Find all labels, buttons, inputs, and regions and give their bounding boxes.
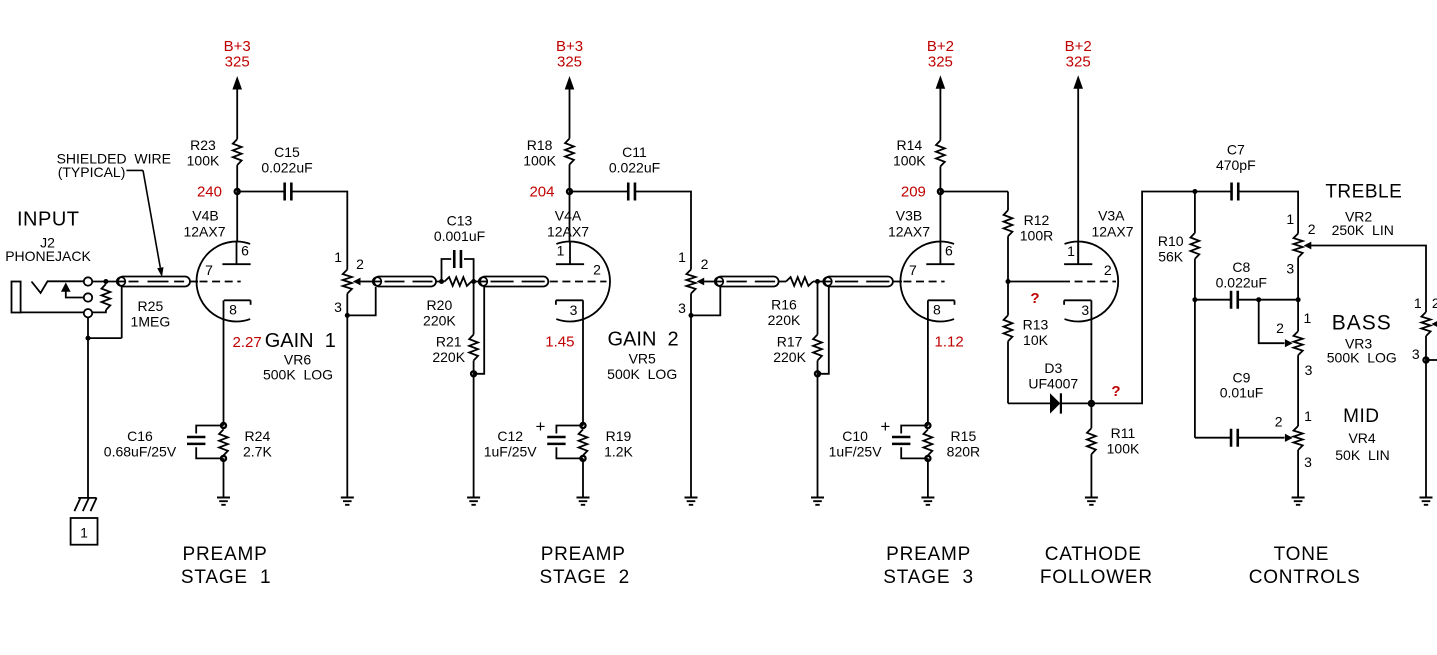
svg-text:3: 3 — [570, 302, 578, 318]
ground (VR4) — [1292, 498, 1305, 505]
svg-text:3: 3 — [1286, 261, 1294, 277]
svg-text:1: 1 — [80, 525, 88, 541]
svg-text:8: 8 — [933, 301, 941, 317]
svg-text:?: ? — [1111, 383, 1120, 400]
resistor R10 56K — [1194, 192, 1196, 233]
capacitor C10 1uF/25V — [901, 426, 928, 434]
svg-text:GAIN 2: GAIN 2 — [608, 329, 679, 351]
wire (VR6 wiper to cable) — [360, 281, 374, 283]
wire (node to C7) — [1195, 191, 1232, 193]
wire (to ground) — [927, 458, 929, 497]
resistor R11 100K — [1090, 403, 1092, 428]
connector J2 phone jack body — [12, 282, 21, 313]
node (input / R25 top) — [103, 279, 108, 284]
svg-text:2: 2 — [1276, 320, 1284, 336]
ground (V4B cathode) — [217, 498, 230, 505]
svg-text:R16: R16 — [771, 297, 797, 313]
svg-text:1MEG: 1MEG — [131, 313, 171, 329]
svg-text:3: 3 — [678, 300, 686, 316]
capacitor C9 0.01uF — [1231, 429, 1238, 447]
svg-text:MID: MID — [1343, 406, 1379, 427]
ground (V4A cathode) — [577, 498, 590, 505]
V4B grid (pin 7, dashed) — [200, 281, 241, 283]
wire (R14 to plate node) — [939, 166, 941, 191]
resistor R17 220K — [817, 282, 819, 335]
svg-text:R15: R15 — [951, 428, 977, 444]
power flag B+2 (cathode follower) — [1073, 75, 1083, 89]
node (VR1 pin 3) — [1423, 357, 1428, 362]
svg-text:1: 1 — [678, 249, 686, 265]
wire (tip terminal to input node) — [92, 281, 118, 283]
svg-text:B+3: B+3 — [224, 38, 251, 55]
svg-text:C12: C12 — [497, 428, 523, 444]
wire (V4B cathode) — [223, 300, 225, 425]
svg-text:1uF/25V: 1uF/25V — [829, 443, 883, 459]
wire (cable 4 shield drain) — [818, 287, 829, 374]
wire (sleeve to ground node) — [87, 317, 89, 338]
svg-text:0.001uF: 0.001uF — [434, 228, 485, 244]
power flag B+3 (stage 2) — [565, 76, 575, 90]
svg-text:R19: R19 — [606, 428, 632, 444]
svg-text:VR5: VR5 — [629, 351, 656, 367]
potentiometer VR2 (TREBLE) — [1294, 234, 1303, 258]
node (C8 / VR3 wiper tap) — [1256, 297, 1261, 302]
ground (VR6) — [341, 498, 354, 505]
node (input ground) — [86, 336, 91, 341]
svg-text:+: + — [536, 417, 546, 436]
svg-text:325: 325 — [1066, 54, 1091, 71]
power flag B+2 (stage 3) — [936, 75, 946, 89]
wire (VR4 to ground) — [1297, 450, 1299, 498]
svg-text:C7: C7 — [1227, 142, 1245, 158]
node (cathode RC top) — [221, 423, 226, 428]
svg-text:220K: 220K — [432, 349, 465, 365]
wire (R25 bottom to sleeve) — [92, 310, 106, 312]
ground (R11) — [1085, 498, 1098, 505]
svg-text:0.022uF: 0.022uF — [1216, 274, 1267, 290]
svg-text:1: 1 — [1304, 408, 1312, 424]
svg-text:2: 2 — [1275, 414, 1283, 430]
svg-text:+: + — [880, 417, 890, 436]
wire (V4A cathode) — [582, 300, 584, 425]
wire (plate node to C15) — [237, 191, 285, 193]
capacitor C16 0.68uF/25V — [196, 426, 223, 434]
svg-text:6: 6 — [241, 242, 249, 258]
svg-text:?: ? — [1030, 290, 1039, 307]
chassis ground — [74, 498, 96, 511]
wire (to ground) — [582, 458, 584, 497]
svg-text:3: 3 — [1412, 346, 1420, 362]
svg-text:56K: 56K — [1158, 248, 1184, 264]
svg-text:3: 3 — [1081, 302, 1089, 318]
node (cathode RC bottom) — [925, 456, 930, 461]
svg-text:8: 8 — [229, 301, 237, 317]
svg-text:3: 3 — [334, 299, 342, 315]
svg-text:0.01uF: 0.01uF — [1220, 385, 1264, 401]
svg-text:2: 2 — [593, 262, 601, 278]
svg-text:325: 325 — [225, 54, 250, 71]
svg-text:C10: C10 — [842, 428, 868, 444]
svg-text:6: 6 — [945, 242, 953, 258]
wire (junction to VR3 pin 1 column) — [1259, 299, 1298, 301]
svg-text:1.45: 1.45 — [545, 334, 574, 351]
svg-text:2: 2 — [356, 256, 364, 272]
svg-text:STAGE 1: STAGE 1 — [181, 567, 272, 588]
V3B grid (pin 7, dashed) — [903, 281, 944, 283]
svg-text:100K: 100K — [893, 152, 926, 168]
svg-text:V4A: V4A — [555, 208, 582, 224]
svg-text:0.68uF/25V: 0.68uF/25V — [104, 443, 177, 459]
capacitor C13 0.001uF (bridge over R20) — [442, 259, 452, 282]
node (R20 left / C13) — [439, 279, 444, 284]
node (R17 bottom / shield drain) — [815, 371, 820, 376]
node (tone input / C7 / R10) — [1192, 189, 1197, 194]
node (R16 right / R17) — [815, 279, 820, 284]
svg-text:R24: R24 — [245, 428, 271, 444]
svg-text:1: 1 — [1067, 243, 1075, 259]
capacitor C15 0.022uF — [285, 183, 292, 201]
potentiometer VR1 (volume, right edge) — [1421, 312, 1430, 336]
potentiometer VR3 (BASS) — [1294, 331, 1303, 355]
wire (R23 to plate node) — [236, 165, 238, 191]
svg-text:R11: R11 — [1111, 425, 1136, 441]
svg-text:100K: 100K — [187, 152, 220, 168]
svg-text:R13: R13 — [1023, 317, 1049, 333]
svg-text:250K LIN: 250K LIN — [1332, 222, 1394, 238]
wire (VR5 wiper to cable) — [704, 281, 716, 283]
svg-text:C13: C13 — [447, 213, 473, 229]
potentiometer VR5 (GAIN 2) — [686, 270, 695, 294]
svg-text:470pF: 470pF — [1216, 157, 1256, 173]
capacitor C8 0.022uF — [1231, 291, 1238, 309]
wire (plate node to V4B plate) — [236, 192, 238, 242]
svg-text:TREBLE: TREBLE — [1325, 182, 1402, 203]
svg-text:0.022uF: 0.022uF — [609, 159, 660, 175]
svg-text:220K: 220K — [423, 312, 456, 328]
wire (plate node to R12) — [940, 191, 1008, 193]
svg-text:1: 1 — [557, 243, 565, 259]
svg-text:(TYPICAL): (TYPICAL) — [58, 164, 126, 180]
svg-text:12AX7: 12AX7 — [183, 223, 225, 239]
svg-text:1: 1 — [1286, 211, 1294, 227]
wire (R18 to plate node) — [569, 165, 571, 192]
wire (cathode output to tone stack) — [1091, 192, 1195, 404]
V3A grid (pin 2, dashed) — [1062, 281, 1116, 283]
svg-text:2.7K: 2.7K — [243, 443, 272, 459]
shielded cable (VR5 to R16) — [716, 277, 779, 287]
svg-text:VR4: VR4 — [1348, 430, 1375, 446]
wire (VR6 to ground) — [346, 315, 348, 497]
svg-text:R10: R10 — [1158, 233, 1184, 249]
wire (ground node down to chassis ground) — [87, 338, 89, 498]
node (R20 right / C13 / R21) — [471, 279, 476, 284]
resistor R16 220K (grid stopper) — [779, 281, 786, 283]
power flag B+3 (stage 1) — [232, 76, 242, 90]
svg-text:325: 325 — [928, 54, 953, 71]
svg-text:12AX7: 12AX7 — [547, 223, 589, 239]
svg-text:C16: C16 — [127, 428, 153, 444]
svg-text:2.27: 2.27 — [233, 334, 262, 351]
shielded cable (R20 to V4A grid) — [480, 277, 548, 287]
resistor R15 820R — [924, 429, 933, 455]
jack terminal (switch) — [84, 293, 92, 301]
wire (VR5 to ground) — [690, 315, 692, 497]
ground (R21) — [467, 498, 480, 505]
wire (VR1 pin 3 stub) — [1426, 359, 1437, 361]
svg-text:1: 1 — [1414, 295, 1422, 311]
ground (VR5) — [685, 498, 698, 505]
jack terminal (sleeve) — [84, 309, 92, 317]
ground (V3B cathode) — [921, 498, 934, 505]
triode V3A (1/2 12AX7) — [1065, 242, 1119, 322]
svg-text:1: 1 — [1304, 310, 1312, 326]
node 240 (V4B plate) — [235, 189, 240, 194]
wire (VR2 wiper to volume pot) — [1311, 246, 1426, 313]
V4A grid (pin 2, dashed) — [550, 281, 607, 283]
node (V3A grid) — [1006, 279, 1011, 284]
wire (plate node to C11) — [570, 191, 629, 193]
svg-text:GAIN 1: GAIN 1 — [265, 330, 336, 352]
wire (V3B cathode) — [927, 300, 929, 425]
shielded cable (VR6 to R20) — [374, 277, 436, 287]
svg-text:C11: C11 — [622, 144, 647, 160]
svg-text:PREAMP: PREAMP — [183, 544, 268, 565]
wire (C8 to junction) — [1238, 299, 1259, 301]
svg-text:CONTROLS: CONTROLS — [1249, 567, 1361, 588]
svg-text:B+2: B+2 — [927, 38, 954, 55]
node (R10 bottom / C8) — [1192, 297, 1197, 302]
node (R21 bottom / shield drain) — [471, 371, 476, 376]
svg-text:PHONEJACK: PHONEJACK — [5, 248, 91, 264]
svg-text:R21: R21 — [436, 334, 462, 350]
wire (R21 to ground) — [473, 374, 475, 498]
svg-text:100K: 100K — [523, 152, 556, 168]
svg-text:R20: R20 — [427, 297, 453, 313]
svg-text:500K LOG: 500K LOG — [263, 367, 333, 383]
potentiometer VR4 (MID) — [1294, 426, 1303, 450]
wire (grid node to V3A grid) — [1008, 281, 1062, 283]
triode V4B (1/2 12AX7) — [197, 242, 251, 322]
triode V4A (1/2 12AX7) — [556, 242, 610, 322]
chassis ground ref box 1 — [71, 518, 98, 545]
svg-text:VR6: VR6 — [284, 351, 311, 367]
wire (D3 to cathode node) — [1061, 402, 1092, 404]
wire (VR3 pin 3 to VR4 pin 1) — [1297, 355, 1299, 426]
wire (cable to V3B grid) — [893, 281, 902, 283]
capacitor C11 0.022uF — [628, 183, 635, 201]
node (cathode RC top) — [580, 423, 585, 428]
jack switch contact — [61, 282, 71, 291]
svg-text:V3A: V3A — [1098, 208, 1125, 224]
wire (tap to VR3 wiper, arrow) — [1259, 300, 1285, 344]
svg-text:R18: R18 — [527, 137, 553, 153]
diode D3 UF4007 — [1050, 393, 1060, 413]
svg-text:7: 7 — [909, 262, 917, 278]
triode V3B (1/2 12AX7) — [900, 242, 954, 322]
resistor R12 100R — [1007, 192, 1009, 211]
svg-text:CATHODE: CATHODE — [1045, 544, 1142, 565]
svg-text:PREAMP: PREAMP — [886, 544, 971, 565]
ground (R17) — [811, 498, 824, 505]
wire (to ground) — [223, 458, 225, 497]
capacitor C12 1uF/25V — [556, 426, 583, 434]
wire (shield drain to VR5 pin 3) — [691, 287, 720, 315]
svg-text:R14: R14 — [896, 137, 922, 153]
svg-text:100K: 100K — [1107, 440, 1140, 456]
wire (VR1 pin 3) — [1425, 336, 1427, 360]
node (VR2-VR3 column) — [1296, 297, 1301, 302]
wire (plate node to V3B plate) — [939, 192, 941, 242]
svg-text:C8: C8 — [1232, 259, 1250, 275]
wire (ground node to shield drain) — [88, 337, 122, 339]
wire (VR2 pin 3 to VR3 pin 1) — [1297, 258, 1299, 332]
svg-text:1.2K: 1.2K — [604, 443, 633, 459]
svg-text:3: 3 — [1305, 362, 1313, 378]
wire (C15 to VR6 pin 1) — [291, 192, 347, 270]
capacitor C7 470pF — [1232, 183, 1239, 201]
shielded cable (R16 to V3B grid) — [825, 277, 893, 287]
svg-text:2: 2 — [1104, 262, 1112, 278]
svg-text:0.022uF: 0.022uF — [261, 159, 312, 175]
wire (VR6 pin 3 down) — [346, 294, 348, 316]
svg-text:1uF/25V: 1uF/25V — [484, 443, 538, 459]
svg-text:220K: 220K — [768, 312, 801, 328]
node (cathode RC bottom) — [580, 456, 585, 461]
wire (C11 to VR5 pin 1) — [635, 192, 691, 270]
resistor R13 10K — [1007, 282, 1009, 316]
svg-text:500K LOG: 500K LOG — [607, 366, 677, 382]
svg-text:10K: 10K — [1023, 332, 1049, 348]
node (cathode RC bottom) — [221, 456, 226, 461]
svg-text:209: 209 — [901, 184, 926, 201]
wire (cable to V4B grid) — [190, 281, 198, 283]
wire (R13 to D3) — [1008, 402, 1051, 404]
svg-text:C9: C9 — [1233, 369, 1251, 385]
resistor R21 220K — [473, 282, 475, 335]
wire (V3A cathode) — [1090, 300, 1092, 403]
svg-text:FOLLOWER: FOLLOWER — [1040, 567, 1153, 588]
svg-text:2: 2 — [1308, 221, 1316, 237]
svg-text:R23: R23 — [190, 137, 216, 153]
svg-text:820R: 820R — [947, 443, 980, 459]
svg-text:7: 7 — [205, 262, 213, 278]
svg-text:240: 240 — [197, 184, 222, 201]
resistor R14 100K — [936, 140, 945, 166]
svg-text:12AX7: 12AX7 — [1091, 223, 1133, 239]
wire (C9 to VR4 wiper, arrow) — [1238, 437, 1285, 439]
node 209 (V3B plate) — [938, 189, 943, 194]
resistor R18 100K — [565, 139, 574, 165]
svg-text:R12: R12 — [1024, 212, 1050, 228]
svg-text:R25: R25 — [138, 298, 164, 314]
shielded cable (input to V4B grid) — [118, 277, 190, 287]
leader arrow (shielded wire) — [126, 169, 143, 171]
svg-text:V3B: V3B — [896, 208, 922, 224]
wire (cable shield drain) — [121, 287, 123, 338]
svg-text:500K LOG: 500K LOG — [1327, 349, 1397, 365]
svg-text:12AX7: 12AX7 — [888, 223, 930, 239]
wire (VR1 to ground) — [1425, 360, 1427, 498]
svg-text:1.12: 1.12 — [935, 334, 964, 351]
svg-text:2: 2 — [1432, 295, 1437, 311]
resistor R24 2.7K — [219, 429, 228, 455]
ground (VR1) — [1420, 498, 1433, 505]
svg-text:B+3: B+3 — [556, 38, 583, 55]
wire (shield drain to VR6 pin 3) — [347, 287, 375, 315]
resistor R20 220K (grid stopper) — [445, 277, 472, 286]
potentiometer VR6 (GAIN 1) — [343, 270, 352, 294]
svg-text:STAGE 3: STAGE 3 — [883, 567, 974, 588]
svg-text:1: 1 — [334, 249, 342, 265]
svg-text:V4B: V4B — [192, 208, 218, 224]
svg-text:204: 204 — [529, 184, 554, 201]
svg-text:BASS: BASS — [1332, 312, 1392, 335]
wire (plate node to V4A plate) — [569, 192, 571, 242]
wire (R17 to ground) — [817, 374, 819, 498]
wire (cable 2 shield drain) — [474, 287, 485, 374]
wire (C8 row) — [1195, 299, 1231, 301]
resistor R23 100K — [233, 139, 242, 165]
svg-text:R17: R17 — [777, 334, 803, 350]
node (VR5 pin 3 / shield) — [689, 313, 694, 318]
wire (C9 row) — [1195, 437, 1231, 439]
svg-text:325: 325 — [557, 54, 582, 71]
svg-text:C15: C15 — [274, 144, 300, 160]
node 204 (V4A plate) — [567, 189, 572, 194]
svg-text:INPUT: INPUT — [17, 209, 80, 231]
svg-text:TONE: TONE — [1274, 544, 1330, 565]
node (VR6 pin 3 / shield) — [345, 313, 350, 318]
svg-text:50K LIN: 50K LIN — [1335, 447, 1389, 463]
svg-text:D3: D3 — [1044, 360, 1062, 376]
resistor R25 1MEG — [102, 284, 111, 310]
resistor R19 1.2K — [579, 429, 588, 455]
svg-text:3: 3 — [1304, 454, 1312, 470]
node (cathode RC top) — [925, 423, 930, 428]
wire (C7 to VR2 pin 1) — [1238, 192, 1298, 234]
wire (VR5 pin 3 down) — [690, 294, 692, 316]
svg-text:2: 2 — [701, 256, 709, 272]
svg-text:B+2: B+2 — [1065, 38, 1092, 55]
svg-text:PREAMP: PREAMP — [541, 544, 626, 565]
svg-text:UF4007: UF4007 — [1028, 376, 1078, 392]
wire (R10-C9 column) — [1194, 300, 1196, 438]
svg-text:STAGE 2: STAGE 2 — [540, 567, 631, 588]
jack terminal (tip) — [84, 277, 92, 285]
svg-text:100R: 100R — [1020, 227, 1053, 243]
svg-text:220K: 220K — [773, 349, 806, 365]
node (cathode output) — [1089, 401, 1094, 406]
